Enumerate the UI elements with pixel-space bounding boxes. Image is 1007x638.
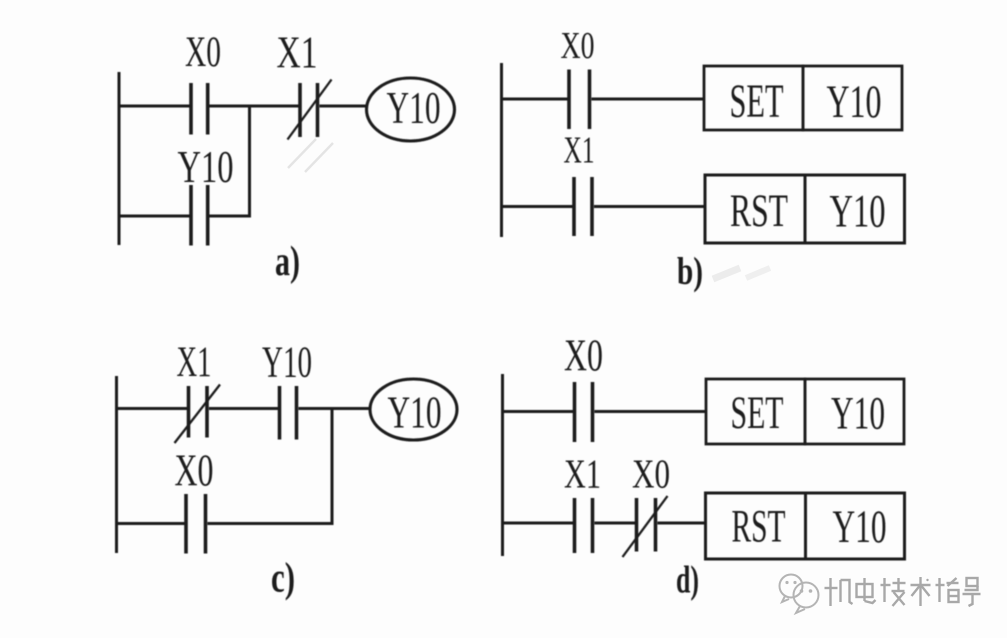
svg-text:X1: X1	[277, 28, 318, 78]
contact X1 (b)	[574, 177, 592, 236]
svg-text:Y10: Y10	[178, 141, 234, 192]
svg-text:RST: RST	[730, 185, 788, 237]
wire rung1 right segment to coil (a)	[320, 105, 368, 108]
svg-text:X0: X0	[632, 451, 670, 497]
svg-text:SET: SET	[730, 75, 784, 128]
contact X0 (b)	[569, 70, 590, 130]
contact X0 (d)	[575, 382, 593, 442]
svg-text:X1: X1	[564, 130, 595, 172]
contact X1 (d)	[575, 498, 593, 553]
char 指	[936, 578, 959, 602]
contact X0 (a)	[191, 83, 208, 135]
contact Y10 (a)	[191, 185, 208, 246]
svg-text:Y10: Y10	[833, 501, 887, 553]
instruction box SET (b)	[704, 66, 803, 130]
instruction box Y10 operand (b, bottom)	[805, 175, 905, 243]
char 机	[825, 578, 853, 606]
wire rung2 left segment (d)	[502, 522, 574, 525]
coil Y10 (a)	[367, 78, 455, 141]
char 电	[857, 578, 876, 603]
contact X0 (c)	[186, 494, 206, 554]
instruction box SET (d)	[706, 379, 805, 444]
wire rung1 right segment to SET box (b)	[592, 98, 705, 101]
svg-text:c): c)	[271, 556, 295, 602]
left power rail (c)	[115, 376, 118, 553]
svg-text:Y10: Y10	[827, 76, 882, 128]
left power rail (a)	[118, 72, 121, 245]
watermark logo: two chat bubbles	[780, 575, 819, 614]
wire rung2 left segment (c)	[116, 522, 185, 525]
wire rung2 left segment (b)	[501, 205, 573, 208]
wire rung2 mid segment (d)	[595, 522, 636, 525]
wire rung1 right segment to coil (c)	[299, 407, 372, 410]
svg-text:X0: X0	[185, 29, 221, 76]
wire rung1 left segment (d)	[502, 410, 574, 413]
instruction box RST (b)	[705, 175, 805, 243]
wire rung2 right segment (c)	[208, 522, 334, 525]
svg-text:RST: RST	[732, 501, 786, 553]
svg-text:X0: X0	[561, 25, 595, 67]
parallel branch vertical connector (c)	[331, 409, 334, 524]
wire rung1 left segment (b)	[501, 98, 568, 101]
char 术	[911, 577, 931, 606]
svg-text:b): b)	[677, 250, 703, 293]
svg-text:SET: SET	[731, 387, 784, 439]
instruction box Y10 operand (d, top)	[805, 379, 904, 444]
svg-text:X0: X0	[564, 331, 603, 381]
wire rung2 left segment (a)	[118, 215, 190, 218]
coil Y10 (c)	[370, 379, 457, 440]
svg-text:Y10: Y10	[387, 83, 441, 133]
instruction box RST (d)	[706, 493, 806, 559]
svg-text:X1: X1	[177, 339, 212, 386]
wire rung1 mid segment (a)	[210, 105, 299, 108]
svg-text:a): a)	[275, 239, 300, 285]
char 技	[881, 578, 906, 606]
instruction box Y10 operand (b, top)	[803, 66, 902, 130]
svg-text:Y10: Y10	[388, 387, 442, 438]
wire rung2 right segment to RST box (b)	[594, 205, 705, 208]
svg-text:d): d)	[676, 559, 699, 602]
contact Y10 (c)	[280, 386, 297, 440]
parallel branch vertical connector (a)	[248, 106, 251, 216]
wire rung1 mid segment (c)	[209, 407, 278, 410]
wire rung1 right segment to SET box (d)	[595, 410, 707, 413]
wire rung2 right segment to RST box (d)	[658, 522, 706, 525]
instruction box Y10 operand (d, bottom)	[806, 493, 905, 559]
svg-text:Y10: Y10	[262, 338, 312, 387]
svg-text:Y10: Y10	[830, 186, 886, 238]
left power rail (d)	[501, 374, 504, 556]
faint watermark diagonal strokes (a)	[288, 139, 770, 279]
wire rung1 left segment (a)	[118, 105, 190, 108]
watermark text 机电技术指导 (simplified strokes)	[825, 577, 981, 606]
contact X1 normally-closed (c)	[175, 385, 221, 444]
svg-text:X1: X1	[564, 451, 601, 497]
char 导	[963, 578, 981, 606]
svg-text:X0: X0	[175, 446, 214, 496]
left power rail (b)	[500, 63, 503, 237]
wire rung2 right segment (a)	[210, 215, 252, 218]
svg-text:Y10: Y10	[831, 388, 885, 440]
contact X0 normally-closed (d)	[623, 496, 668, 557]
contact X1 normally-closed (a)	[288, 80, 332, 140]
wire rung1 left segment (c)	[116, 407, 188, 410]
